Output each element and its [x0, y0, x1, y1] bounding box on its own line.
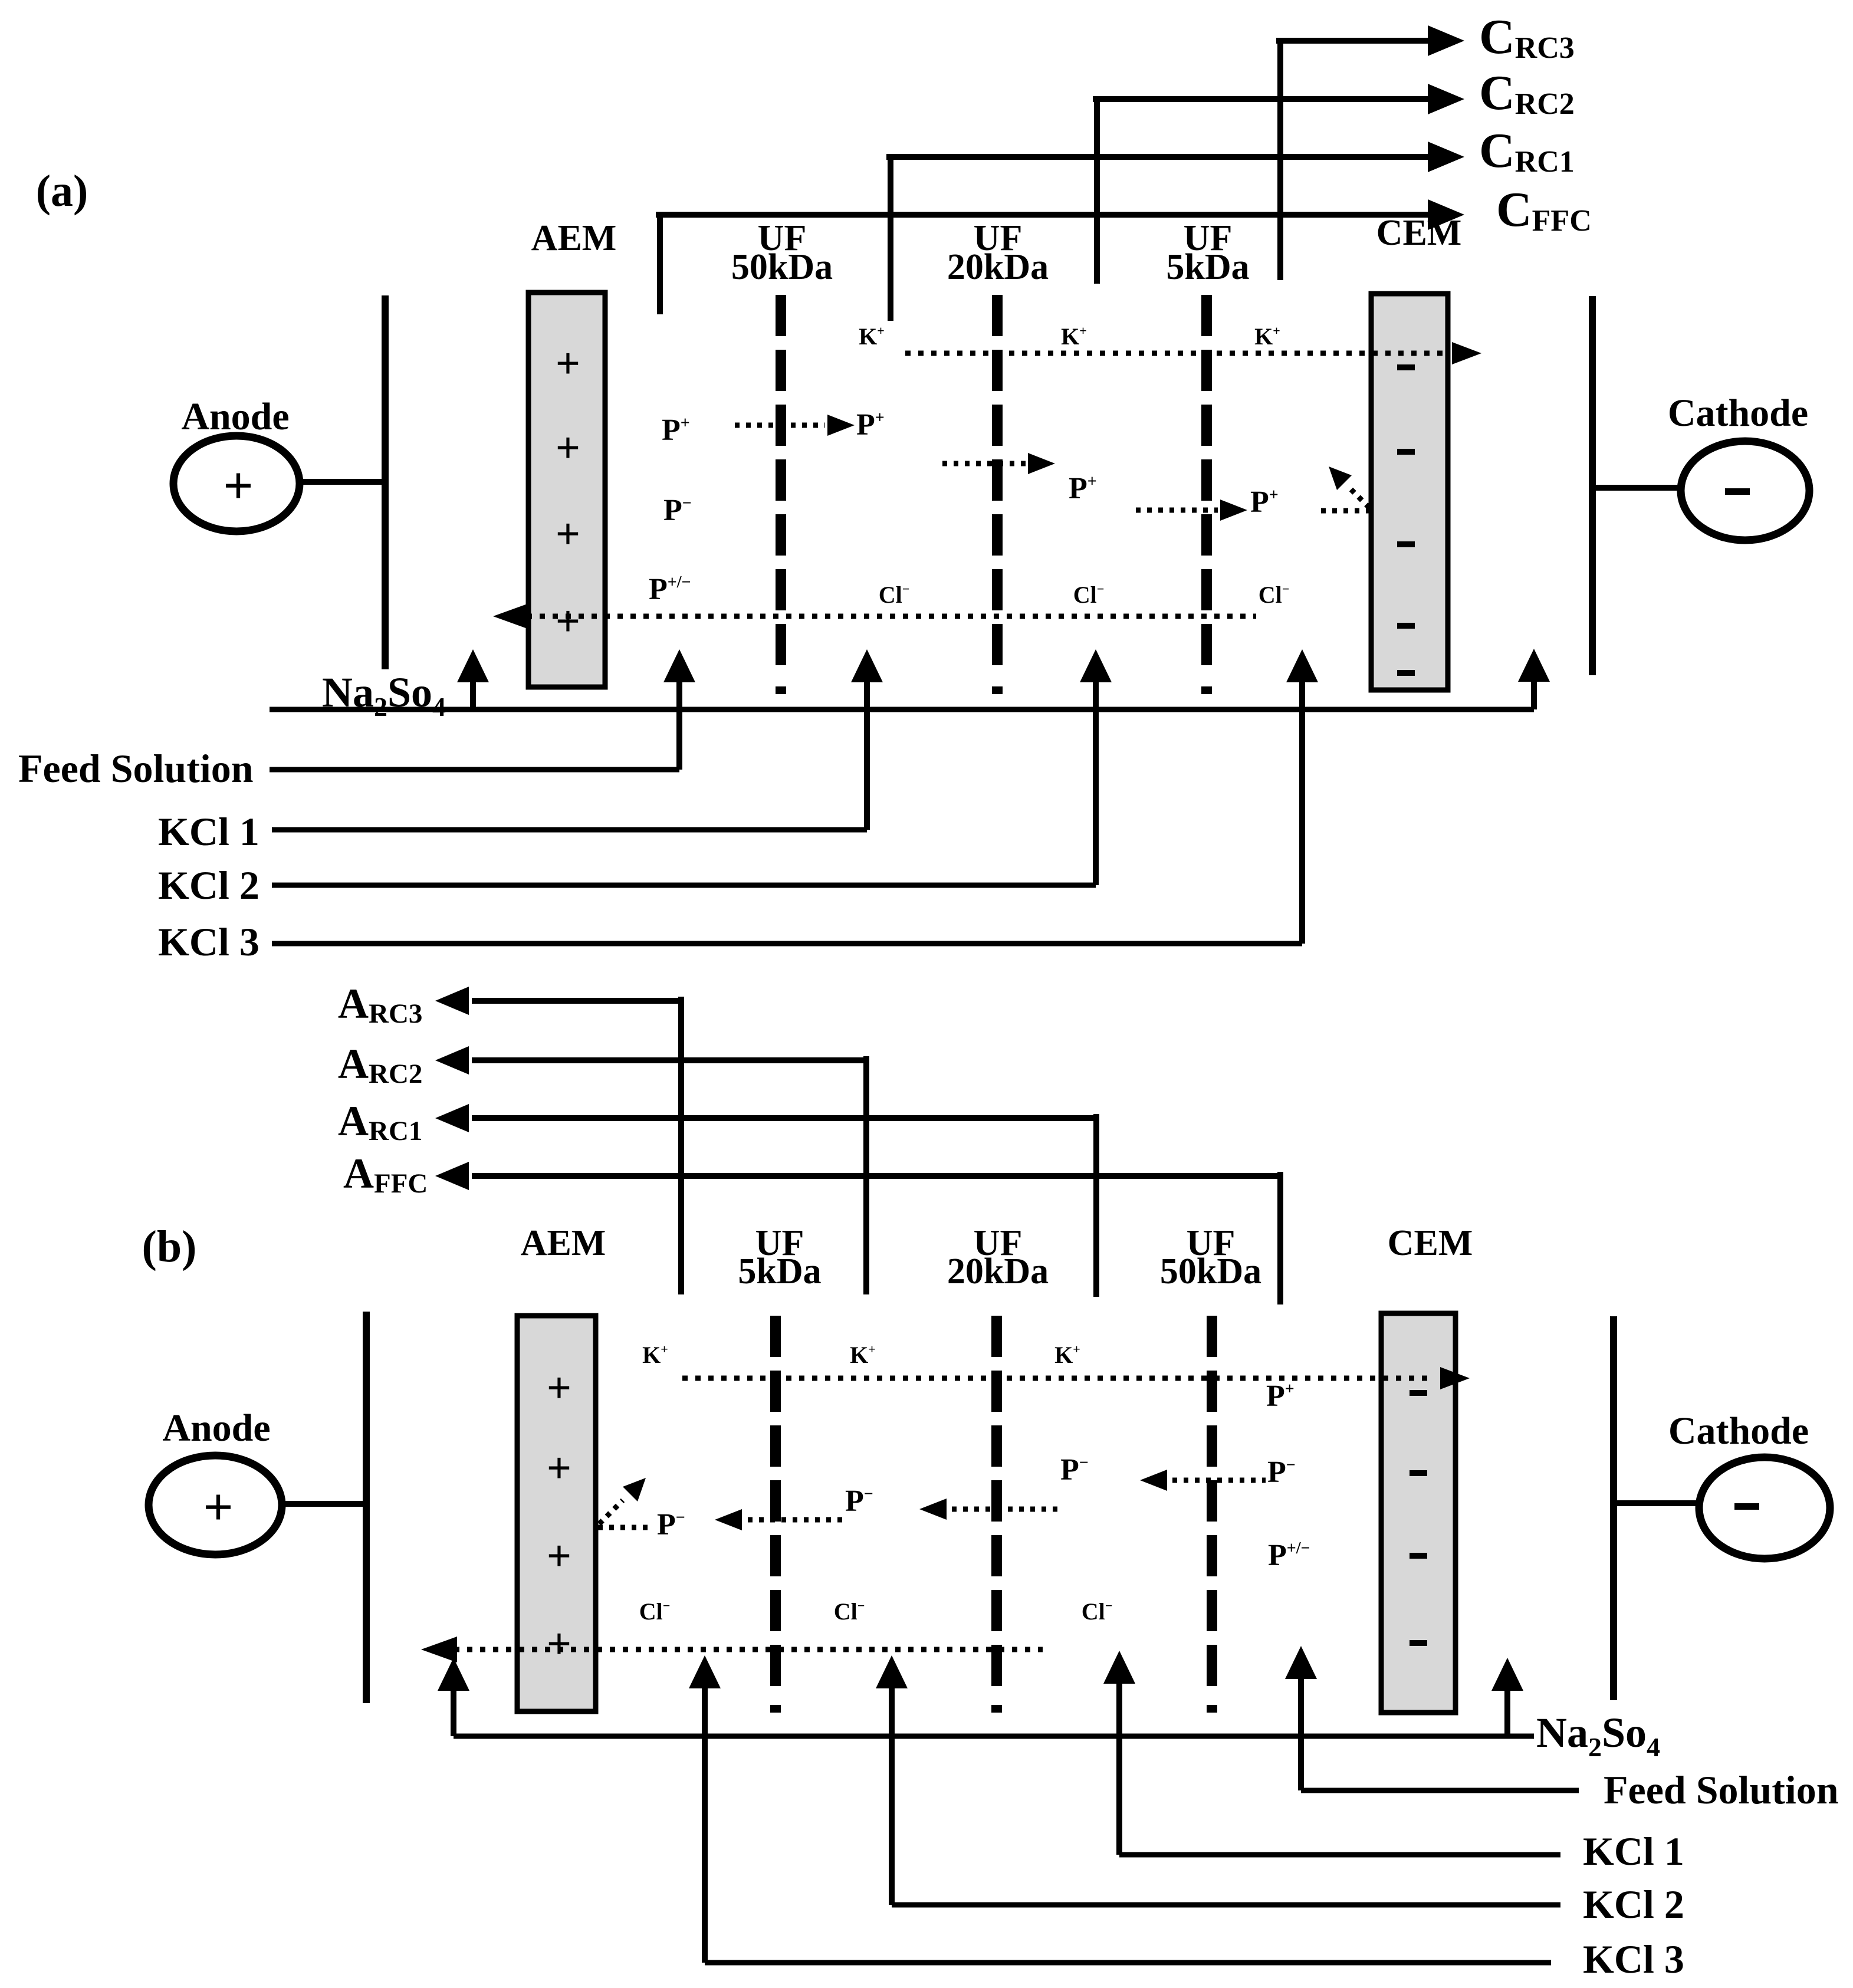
svg-text:Cathode: Cathode [1668, 1409, 1809, 1453]
svg-text:Feed Solution: Feed Solution [18, 746, 254, 791]
svg-text:+: + [223, 457, 253, 515]
svg-text:KCl 3: KCl 3 [158, 919, 259, 964]
svg-text:(a): (a) [36, 166, 88, 216]
svg-text:50kDa: 50kDa [731, 247, 833, 287]
svg-text:5kDa: 5kDa [1166, 247, 1249, 287]
svg-text:AEM: AEM [521, 1223, 606, 1263]
svg-text:AEM: AEM [531, 218, 617, 258]
svg-text:+: + [556, 510, 580, 558]
svg-text:KCl 2: KCl 2 [158, 863, 259, 908]
svg-text:(b): (b) [142, 1222, 197, 1271]
svg-text:CEM: CEM [1388, 1223, 1473, 1263]
svg-text:+: + [556, 597, 580, 646]
svg-text:Cathode: Cathode [1668, 392, 1808, 435]
svg-text:+: + [547, 1444, 571, 1493]
svg-text:5kDa: 5kDa [738, 1251, 821, 1292]
svg-text:+: + [547, 1532, 571, 1580]
svg-text:KCl 3: KCl 3 [1583, 1937, 1684, 1982]
svg-text:20kDa: 20kDa [947, 247, 1049, 287]
svg-text:Feed Solution: Feed Solution [1604, 1767, 1839, 1812]
svg-text:50kDa: 50kDa [1160, 1251, 1261, 1292]
svg-text:KCl 1: KCl 1 [1583, 1829, 1684, 1874]
svg-text:Anode: Anode [162, 1407, 270, 1450]
svg-text:+: + [203, 1478, 233, 1537]
svg-text:20kDa: 20kDa [947, 1251, 1049, 1292]
svg-text:+: + [547, 1620, 571, 1668]
svg-text:+: + [556, 340, 580, 388]
svg-text:+: + [547, 1364, 571, 1412]
svg-text:Anode: Anode [181, 395, 289, 438]
svg-text:KCl 1: KCl 1 [158, 809, 259, 854]
svg-text:+: + [556, 424, 580, 472]
svg-text:KCl 2: KCl 2 [1583, 1882, 1684, 1927]
